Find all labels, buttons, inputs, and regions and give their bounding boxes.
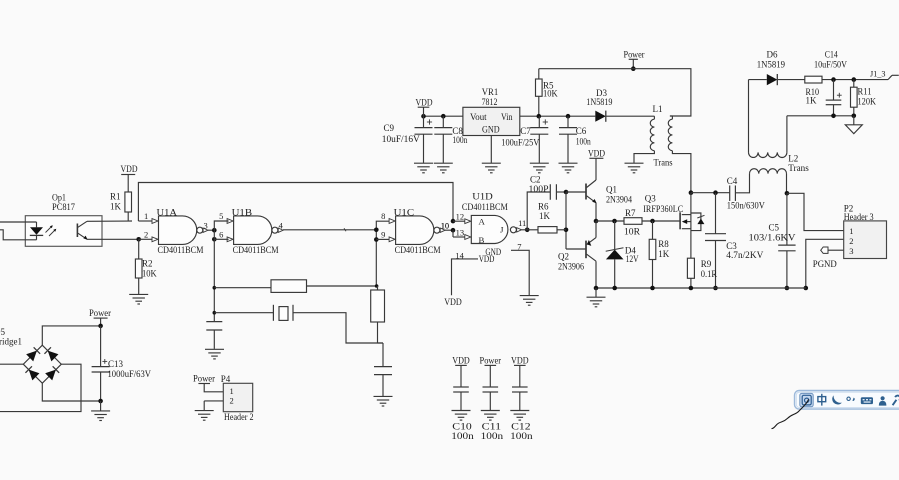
svg-text:Power: Power xyxy=(89,308,111,318)
svg-text:120K: 120K xyxy=(858,96,877,106)
svg-text:B: B xyxy=(479,235,485,245)
svg-text:CD4011BCM: CD4011BCM xyxy=(233,245,279,255)
svg-text:PC817: PC817 xyxy=(52,202,75,212)
svg-text:Header 3: Header 3 xyxy=(844,212,874,222)
svg-text:R7: R7 xyxy=(625,208,636,218)
svg-text:12V: 12V xyxy=(626,254,639,264)
svg-text:C4: C4 xyxy=(727,176,738,186)
svg-text:C11: C11 xyxy=(482,423,502,433)
svg-text:10K: 10K xyxy=(142,268,157,278)
svg-text:1N5819: 1N5819 xyxy=(586,97,613,107)
svg-text:12: 12 xyxy=(456,211,465,221)
svg-text:Q1: Q1 xyxy=(606,185,617,195)
svg-text:J1_3: J1_3 xyxy=(870,69,886,78)
svg-text:1K: 1K xyxy=(658,249,670,259)
svg-text:100n: 100n xyxy=(510,432,533,442)
svg-text:4.7n/2KV: 4.7n/2KV xyxy=(726,250,764,260)
svg-text:Q2: Q2 xyxy=(558,252,569,262)
svg-text:100P: 100P xyxy=(529,184,549,194)
svg-text:L2: L2 xyxy=(788,154,798,164)
svg-text:Trans: Trans xyxy=(654,158,673,168)
svg-text:A: A xyxy=(479,217,486,227)
svg-text:1K: 1K xyxy=(806,96,818,106)
svg-text:3: 3 xyxy=(204,220,208,230)
svg-text:VDD: VDD xyxy=(444,297,462,307)
svg-text:2: 2 xyxy=(144,230,148,240)
svg-text:C6: C6 xyxy=(576,126,587,136)
svg-text:CD4011BCM: CD4011BCM xyxy=(395,245,441,255)
svg-text:1: 1 xyxy=(144,211,148,221)
svg-text:4: 4 xyxy=(279,220,284,230)
svg-text:Trans: Trans xyxy=(788,163,809,173)
svg-text:VDD: VDD xyxy=(121,164,138,174)
svg-text:7812: 7812 xyxy=(482,97,498,107)
svg-text:R1: R1 xyxy=(110,191,121,201)
svg-text:2N3904: 2N3904 xyxy=(606,194,632,204)
svg-text:C13: C13 xyxy=(108,359,123,369)
svg-text:2N3906: 2N3906 xyxy=(558,261,584,271)
svg-text:100uF/25V: 100uF/25V xyxy=(501,137,539,147)
svg-text:1N5819: 1N5819 xyxy=(757,60,786,70)
svg-text:P4: P4 xyxy=(221,374,231,384)
svg-text:10R: 10R xyxy=(624,227,640,237)
svg-text:13: 13 xyxy=(456,228,465,238)
svg-text:R11: R11 xyxy=(858,87,872,97)
svg-text:0.1R: 0.1R xyxy=(701,269,717,279)
svg-text:Vin: Vin xyxy=(501,112,513,122)
svg-text:U1C: U1C xyxy=(394,207,415,217)
svg-text:Vout: Vout xyxy=(470,112,487,122)
svg-text:U1D: U1D xyxy=(472,192,493,202)
svg-text:J: J xyxy=(500,224,504,234)
svg-text:C9: C9 xyxy=(384,123,395,133)
svg-text:100n: 100n xyxy=(576,136,591,146)
svg-text:VDD: VDD xyxy=(588,149,605,159)
svg-text:R2: R2 xyxy=(142,259,153,269)
svg-text:2: 2 xyxy=(849,236,853,246)
svg-text:C7: C7 xyxy=(520,126,531,136)
svg-text:1: 1 xyxy=(849,226,853,236)
svg-text:VDD: VDD xyxy=(479,254,495,264)
svg-text:Bridge1: Bridge1 xyxy=(0,337,22,347)
svg-text:11: 11 xyxy=(518,218,526,228)
svg-text:9: 9 xyxy=(381,230,385,240)
svg-text:5: 5 xyxy=(219,211,223,221)
svg-text:VDD: VDD xyxy=(416,97,433,107)
svg-text:1K: 1K xyxy=(539,211,551,221)
svg-text:R9: R9 xyxy=(701,259,712,269)
svg-text:VR1: VR1 xyxy=(482,87,499,97)
svg-text:C10: C10 xyxy=(452,423,472,433)
svg-text:C14: C14 xyxy=(825,50,838,60)
svg-text:100n: 100n xyxy=(481,432,504,442)
svg-text:IRFP360LC: IRFP360LC xyxy=(643,204,683,214)
svg-text:1000uF/63V: 1000uF/63V xyxy=(108,369,152,379)
svg-text:Power: Power xyxy=(193,374,215,384)
svg-text:C5: C5 xyxy=(769,223,780,233)
svg-text:150n/630V: 150n/630V xyxy=(727,201,765,211)
svg-text:CD4011BCM: CD4011BCM xyxy=(158,245,204,255)
svg-text:2: 2 xyxy=(230,396,234,406)
svg-text:C2: C2 xyxy=(530,175,541,185)
svg-text:U1A: U1A xyxy=(157,207,178,217)
svg-text:3: 3 xyxy=(849,246,853,256)
svg-text:103/1.6KV: 103/1.6KV xyxy=(749,232,797,242)
svg-text:GND: GND xyxy=(482,125,500,135)
svg-text:8: 8 xyxy=(381,211,385,221)
svg-text:10uF/16V: 10uF/16V xyxy=(382,134,421,144)
svg-text:Header 2: Header 2 xyxy=(224,412,254,422)
svg-text:L1: L1 xyxy=(653,104,663,114)
svg-text:PGND: PGND xyxy=(813,259,837,269)
svg-text:100n: 100n xyxy=(451,432,474,442)
svg-text:R8: R8 xyxy=(658,239,669,249)
svg-text:Power: Power xyxy=(624,49,645,59)
svg-text:Op1: Op1 xyxy=(52,192,66,202)
svg-text:CD4011BCM: CD4011BCM xyxy=(462,202,508,212)
svg-text:D6: D6 xyxy=(767,50,778,60)
svg-text:U1B: U1B xyxy=(232,207,253,217)
svg-text:D5: D5 xyxy=(0,327,5,337)
svg-text:6: 6 xyxy=(219,230,223,240)
svg-text:10: 10 xyxy=(441,220,449,230)
svg-text:10K: 10K xyxy=(543,88,558,98)
svg-text:100n: 100n xyxy=(452,135,467,145)
svg-text:1K: 1K xyxy=(110,201,122,211)
svg-text:R6: R6 xyxy=(538,202,549,212)
svg-text:C12: C12 xyxy=(511,423,531,433)
svg-text:Q3: Q3 xyxy=(645,193,656,203)
svg-text:10uF/50V: 10uF/50V xyxy=(814,60,847,70)
